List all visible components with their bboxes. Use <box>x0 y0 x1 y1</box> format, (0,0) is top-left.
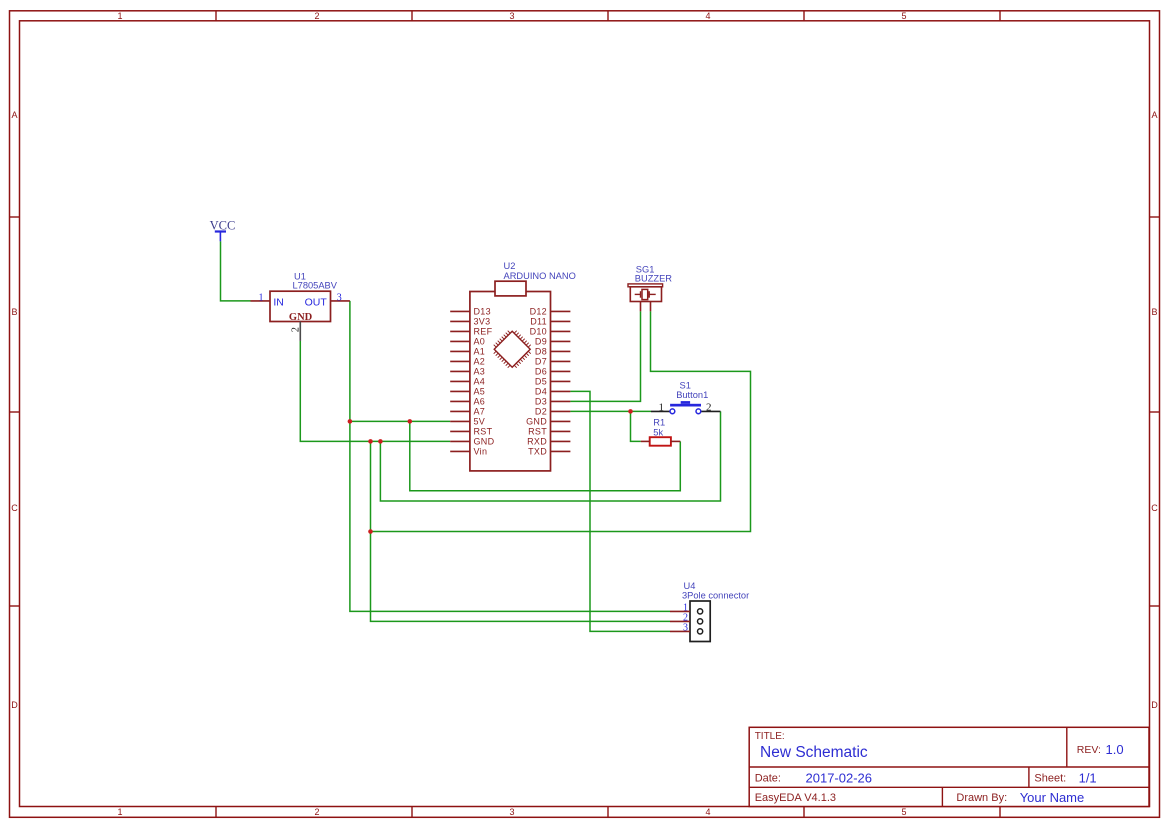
wire GND net down to U4 pin2 <box>371 441 671 621</box>
svg-text:TITLE:: TITLE: <box>755 731 785 742</box>
svg-text:C: C <box>1151 503 1158 513</box>
svg-text:3Pole connector: 3Pole connector <box>682 591 749 601</box>
svg-text:1.0: 1.0 <box>1106 742 1124 757</box>
svg-text:ARDUINO NANO: ARDUINO NANO <box>504 271 576 281</box>
voltage regulator U1 L7805ABV <box>251 271 350 341</box>
svg-text:A2: A2 <box>474 357 486 367</box>
svg-text:A0: A0 <box>474 337 486 347</box>
svg-text:4: 4 <box>705 11 710 21</box>
U1 pin 3 <box>331 300 350 302</box>
pushbutton S1 Button1 <box>651 381 721 414</box>
svg-text:D13: D13 <box>474 307 491 317</box>
U2 pin right D8 <box>551 350 571 352</box>
svg-text:A7: A7 <box>474 407 486 417</box>
R1 pin left <box>641 440 650 442</box>
svg-text:RST: RST <box>474 427 493 437</box>
S1 lead pin2 <box>701 410 721 412</box>
wire Arduino D4 to U4 pin3 <box>570 391 670 631</box>
U2 pin right GND <box>551 420 571 422</box>
svg-text:A1: A1 <box>474 347 486 357</box>
svg-text:2017-02-26: 2017-02-26 <box>806 771 873 786</box>
U2 pin left RST <box>450 430 470 432</box>
svg-text:1: 1 <box>259 292 264 303</box>
U2 pin right D9 <box>551 340 571 342</box>
wire Arduino D3 to buzzer pin1 <box>570 311 640 401</box>
wire D2 branch down to R1 left <box>631 411 641 441</box>
svg-text:D: D <box>11 700 18 710</box>
svg-text:Your Name: Your Name <box>1020 790 1085 805</box>
buzzer SG1 <box>628 264 672 311</box>
U2 pin left A2 <box>450 360 470 362</box>
svg-text:2: 2 <box>706 402 712 414</box>
U2 pin left A5 <box>450 390 470 392</box>
U4 pin 2 <box>670 620 690 622</box>
svg-text:GND: GND <box>289 312 313 323</box>
wire R1 bottom to 5V net <box>410 421 681 490</box>
U2 pin left D13 <box>450 310 470 312</box>
wire Arduino D2 to S1 pin1 <box>570 410 651 412</box>
svg-text:3: 3 <box>509 807 514 817</box>
U2 pin right D5 <box>551 380 571 382</box>
U2 pin left 3V3 <box>450 320 470 322</box>
U2 pin left REF <box>450 330 470 332</box>
svg-text:U4: U4 <box>684 581 696 591</box>
svg-text:D11: D11 <box>530 317 547 327</box>
svg-text:D3: D3 <box>535 397 547 407</box>
U2 pin left A3 <box>450 370 470 372</box>
connector U4 3Pole connector <box>670 581 749 642</box>
svg-text:5k: 5k <box>653 427 663 437</box>
junction dot GND/buzzer branch <box>368 529 373 534</box>
svg-text:D6: D6 <box>535 367 547 377</box>
svg-text:EasyEDA V4.1.3: EasyEDA V4.1.3 <box>755 792 836 804</box>
svg-text:D2: D2 <box>535 407 547 417</box>
frame column ticks top/bottom <box>215 11 217 21</box>
junction dot 5V/OUT net <box>348 419 353 424</box>
svg-text:D10: D10 <box>530 327 547 337</box>
svg-text:B: B <box>1151 307 1157 317</box>
svg-text:L7805ABV: L7805ABV <box>293 281 338 291</box>
svg-text:R1: R1 <box>653 418 665 428</box>
U2 pin left A6 <box>450 400 470 402</box>
U2 USB connector box <box>495 281 526 296</box>
junction dot GND net A <box>368 439 373 444</box>
svg-text:2: 2 <box>290 327 301 332</box>
svg-text:D5: D5 <box>535 377 547 387</box>
svg-text:Vin: Vin <box>474 447 488 457</box>
junction dot GND net B <box>378 439 383 444</box>
svg-text:5V: 5V <box>474 417 486 427</box>
svg-text:RXD: RXD <box>527 437 547 447</box>
svg-text:A: A <box>11 110 17 120</box>
svg-text:B: B <box>11 307 17 317</box>
U2 pin right TXD <box>551 450 571 452</box>
U1 pin 2 <box>299 322 301 341</box>
svg-text:A6: A6 <box>474 397 486 407</box>
svg-text:4: 4 <box>705 807 710 817</box>
wire U1 GND down/right to Arduino GND <box>300 341 450 442</box>
S1 actuator bar <box>670 404 701 407</box>
U2 pin right RST <box>551 430 571 432</box>
svg-text:D12: D12 <box>530 307 547 317</box>
svg-text:REF: REF <box>474 327 493 337</box>
junction dot D2/R1 branch <box>628 409 633 414</box>
junction dot 5V to R1 branch <box>408 419 413 424</box>
svg-text:D: D <box>1151 700 1158 710</box>
U4 pin 1 <box>670 610 690 612</box>
wire buzzer pin2 to GND net <box>371 311 751 531</box>
svg-text:A: A <box>1151 110 1157 120</box>
svg-text:IN: IN <box>273 296 284 308</box>
title block <box>749 727 1149 806</box>
svg-text:3V3: 3V3 <box>474 317 491 327</box>
S1 contact circles <box>670 409 675 414</box>
U2 pin left A0 <box>450 340 470 342</box>
frame row ticks left/right <box>10 216 20 218</box>
svg-text:TXD: TXD <box>528 447 547 457</box>
svg-text:U2: U2 <box>504 261 516 271</box>
U2 pin left Vin <box>450 450 470 452</box>
svg-text:New Schematic: New Schematic <box>760 744 868 761</box>
wire VCC to U1 IN <box>221 241 251 301</box>
U2 pin left A4 <box>450 380 470 382</box>
svg-text:A4: A4 <box>474 377 486 387</box>
R1 pin right <box>671 440 680 442</box>
U2 pin left 5V <box>450 420 470 422</box>
svg-text:GND: GND <box>474 437 495 447</box>
svg-text:Sheet:: Sheet: <box>1034 773 1066 785</box>
U2 pin right D11 <box>551 320 571 322</box>
U2 pin right D6 <box>551 370 571 372</box>
wire 5V branch to Arduino 5V <box>350 420 450 422</box>
buzzer crystal element <box>642 289 648 299</box>
svg-text:Date:: Date: <box>755 773 781 785</box>
U2 pin right RXD <box>551 440 571 442</box>
U2 pin right D7 <box>551 360 571 362</box>
svg-text:REV:: REV: <box>1077 744 1101 756</box>
S1 lead pin1 <box>651 410 670 412</box>
MCU U2 ARDUINO NANO <box>450 261 576 471</box>
svg-text:1/1: 1/1 <box>1079 771 1097 786</box>
svg-text:A5: A5 <box>474 387 486 397</box>
U2 pin right D4 <box>551 390 571 392</box>
svg-text:D9: D9 <box>535 337 547 347</box>
svg-text:3: 3 <box>337 292 342 303</box>
svg-text:5: 5 <box>901 11 906 21</box>
svg-text:5: 5 <box>901 807 906 817</box>
svg-text:OUT: OUT <box>305 296 328 308</box>
svg-text:3: 3 <box>509 11 514 21</box>
svg-text:BUZZER: BUZZER <box>635 274 672 284</box>
U2 pin right D2 <box>551 410 571 412</box>
U2 pin left A1 <box>450 350 470 352</box>
svg-text:A3: A3 <box>474 367 486 377</box>
svg-text:1: 1 <box>117 11 122 21</box>
buzzer pin 1 <box>640 302 642 312</box>
svg-text:GND: GND <box>526 417 547 427</box>
svg-text:C: C <box>11 503 18 513</box>
svg-text:1: 1 <box>658 402 664 414</box>
U1 pin 1 <box>251 300 271 302</box>
svg-text:Button1: Button1 <box>676 390 708 400</box>
power flag VCC <box>210 219 236 242</box>
svg-text:2: 2 <box>314 807 319 817</box>
svg-text:D4: D4 <box>535 387 547 397</box>
wire S1 pin2 to GND net <box>380 411 720 501</box>
U2 pin right D3 <box>551 400 571 402</box>
svg-text:D7: D7 <box>535 357 547 367</box>
svg-text:Drawn By:: Drawn By: <box>956 792 1007 804</box>
U2 chip diamond glyph <box>494 331 530 367</box>
svg-text:1: 1 <box>117 807 122 817</box>
U4 pin 3 <box>670 630 690 632</box>
U2 pin right D10 <box>551 330 571 332</box>
resistor R1 5k <box>641 418 681 446</box>
svg-text:3: 3 <box>683 623 688 634</box>
U2 pin right D12 <box>551 310 571 312</box>
U2 pin left GND <box>450 440 470 442</box>
wire U1 OUT down to U4 pin1 (5V net) <box>350 301 670 612</box>
svg-text:RST: RST <box>528 427 547 437</box>
svg-text:D8: D8 <box>535 347 547 357</box>
buzzer pin 2 <box>650 302 652 312</box>
svg-text:2: 2 <box>314 11 319 21</box>
U2 pin left A7 <box>450 410 470 412</box>
